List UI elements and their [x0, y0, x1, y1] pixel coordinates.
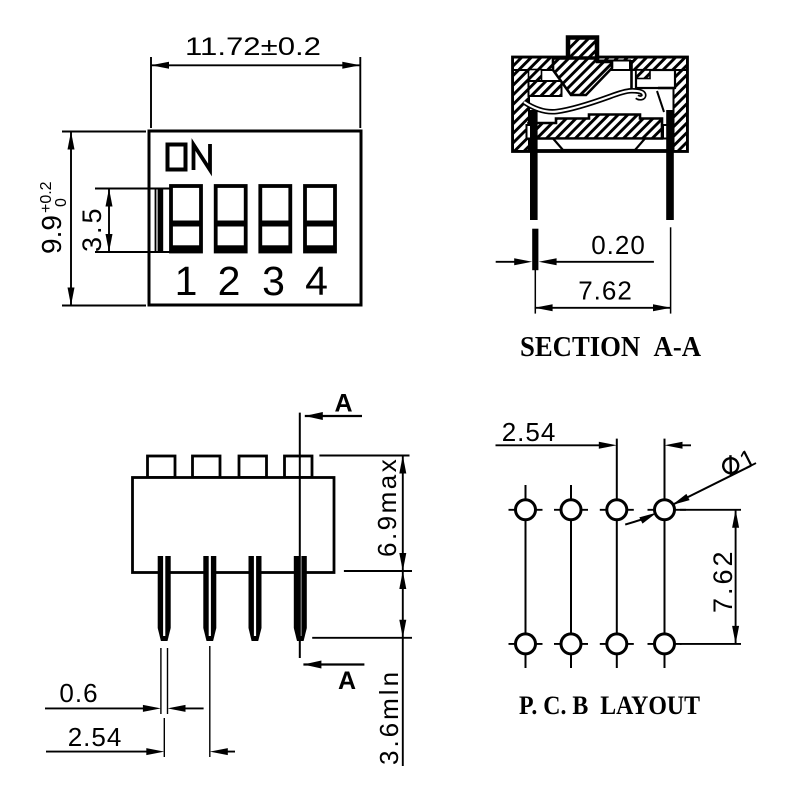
pin 3: [249, 556, 262, 641]
pocket divider line: [632, 60, 676, 88]
svg-text:1: 1: [175, 258, 198, 304]
svg-text:4: 4: [305, 258, 328, 304]
left leg lower segment: [532, 229, 538, 271]
dimension 11.72±0.2: [151, 33, 360, 128]
right pocket tab hatch: [636, 70, 650, 79]
ON label O: [168, 145, 186, 170]
right leg extension line: [670, 227, 672, 313]
dimension 0.6: [45, 678, 204, 712]
dimension 0.20: [496, 230, 654, 265]
pin 2: [203, 556, 216, 641]
index bar: [158, 188, 164, 253]
left leg extension line: [534, 270, 536, 314]
svg-text:11.72±0.2: 11.72±0.2: [185, 33, 321, 61]
left terminal leg: [530, 110, 538, 220]
dimension 9.9 +0.2/0: [36, 132, 146, 306]
switch numbers: [175, 258, 328, 304]
dimension 6.9max: [319, 456, 412, 572]
hole r1c4: [648, 500, 687, 520]
svg-text:0: 0: [53, 198, 70, 207]
svg-text:9.9: 9.9: [36, 215, 67, 254]
bottom cavity trapezoid: [553, 139, 645, 151]
pin 4: [294, 556, 307, 641]
column line 1: [525, 485, 527, 668]
svg-text:3.6mln: 3.6mln: [374, 669, 404, 765]
right pocket white: [636, 70, 675, 88]
cavity slant edge: [657, 91, 664, 112]
section arrow A bottom: [303, 661, 364, 696]
base hatch: [529, 115, 663, 139]
leg pocket left: [527, 125, 536, 139]
hole r1c1: [509, 500, 543, 520]
hole r1c2: [554, 500, 588, 520]
hole r2c4: [648, 634, 682, 654]
side view body: [133, 478, 335, 573]
left step tab hatch: [529, 70, 542, 82]
svg-text:A: A: [334, 390, 352, 418]
left block hatch: [529, 81, 562, 96]
bump 4: [285, 456, 313, 478]
slider wedge hatch: [553, 59, 612, 96]
ON label N: [194, 144, 211, 170]
leg pocket right: [663, 125, 674, 139]
dimension 7.62 (pcb): [680, 510, 741, 644]
svg-text:SECTION A-A: SECTION A-A: [520, 332, 702, 363]
dimension 3.5: [77, 189, 170, 253]
index thin line: [155, 188, 157, 253]
right terminal leg: [666, 110, 674, 220]
bump 3: [239, 456, 267, 478]
bump 2: [193, 456, 221, 478]
dimension 3.6min: [312, 571, 412, 766]
section arrow A top: [305, 390, 362, 421]
bump 1: [148, 456, 176, 478]
svg-text:2: 2: [218, 258, 241, 304]
svg-text:P. C. B LAYOUT: P. C. B LAYOUT: [519, 691, 700, 720]
hole r2c3: [600, 634, 634, 654]
svg-text:0.6: 0.6: [59, 678, 98, 708]
actuator button hatch: [568, 38, 597, 59]
svg-text:7.62: 7.62: [708, 548, 738, 613]
column line 3: [616, 439, 618, 668]
dimension 2.54 (pcb): [496, 417, 692, 449]
svg-text:A: A: [338, 667, 356, 695]
dimension 2.54 (side): [46, 722, 235, 755]
column line 2: [570, 485, 572, 668]
section body outline: [513, 58, 687, 152]
pin2 center extension line: [209, 646, 211, 757]
hole r2c1: [509, 634, 543, 654]
svg-text:0.20: 0.20: [591, 230, 646, 260]
diameter leader phi1: [625, 444, 760, 525]
svg-text:2.54: 2.54: [68, 722, 123, 752]
svg-text:3: 3: [262, 258, 285, 304]
svg-text:6.9max: 6.9max: [372, 457, 402, 557]
hole r1c3: [600, 500, 634, 520]
hole r2c2: [554, 634, 588, 654]
dimension 7.62 (section): [535, 276, 671, 312]
left wall hatch: [513, 58, 529, 152]
svg-text:2.54: 2.54: [502, 417, 557, 447]
column line 4: [664, 439, 666, 668]
switch 4: [305, 186, 335, 252]
svg-text:7.62: 7.62: [578, 276, 633, 306]
svg-text:3.5: 3.5: [77, 205, 107, 252]
svg-text:+0.2: +0.2: [38, 181, 55, 213]
top pocket white: [599, 61, 630, 71]
front view body: [149, 131, 361, 305]
section cut line A-A: [299, 413, 301, 658]
top cover hatch band: [513, 58, 687, 71]
right wall hatch: [674, 58, 688, 152]
switch 2: [216, 186, 246, 252]
pin 1: [158, 556, 171, 641]
pin1 edge extension lines: [161, 648, 168, 714]
switch 3: [260, 186, 290, 252]
switch 1: [171, 186, 201, 252]
contact spring: [524, 91, 644, 112]
pin1 center extension line: [163, 718, 165, 757]
